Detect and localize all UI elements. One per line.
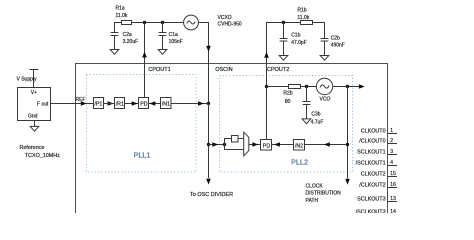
wire VCO output	[333, 86, 359, 88]
svg-text:/SCLKOUT3: /SCLKOUT3	[356, 210, 386, 213]
wire R2b to VCO	[301, 86, 317, 88]
svg-text:PATH: PATH	[306, 198, 319, 204]
wire R1a left to C2a	[115, 23, 122, 33]
svg-text:VCO: VCO	[320, 97, 331, 103]
wire VCO feedback to N2	[305, 144, 348, 146]
resistor R1a	[122, 21, 132, 25]
wire R1b right to C2b	[313, 23, 325, 39]
wire VCXO to OSCIN	[198, 23, 208, 104]
svg-text:C3b: C3b	[311, 111, 320, 117]
PLL1 dotted box	[87, 75, 197, 173]
node junction CPOUT2-R2b	[265, 85, 268, 88]
ground under C3b	[302, 119, 311, 124]
wire P1 to R1	[104, 103, 115, 105]
svg-text:2: 2	[390, 138, 393, 144]
divider /N2	[294, 140, 305, 151]
arrowhead into PLL2	[212, 142, 218, 147]
svg-text:105nF: 105nF	[169, 39, 183, 45]
wire VCO down to clock distribution	[347, 87, 349, 179]
mux symbol	[244, 132, 249, 156]
svg-text:16: 16	[390, 182, 396, 188]
phase detector PD (PLL1)	[139, 98, 149, 109]
wire TCXO ground stub	[34, 121, 36, 127]
svg-text:DISTRIBUTION: DISTRIBUTION	[306, 191, 342, 197]
arrowhead VCO to clock outputs	[359, 84, 365, 89]
wire N2 to PD	[272, 144, 294, 146]
svg-text:PD: PD	[263, 144, 271, 150]
svg-text:15: 15	[390, 171, 396, 177]
pin 16 /CLKOUT2	[388, 187, 398, 189]
svg-text:11.0k: 11.0k	[116, 13, 128, 19]
svg-text:CVHD-950: CVHD-950	[218, 22, 242, 28]
arrowhead at OSCIN node	[198, 101, 204, 106]
wire N1 to OSCIN node	[171, 103, 209, 105]
wire OSCIN down to OSC divider	[208, 104, 210, 179]
svg-text:3.20uF: 3.20uF	[123, 39, 139, 45]
svg-text:/P1: /P1	[94, 102, 102, 108]
svg-text:PD: PD	[140, 102, 148, 108]
svg-text:/R1: /R1	[116, 102, 124, 108]
node junction C1b	[282, 21, 285, 24]
power symbol V Supply	[30, 69, 39, 71]
svg-text:Reference: Reference	[20, 145, 45, 151]
svg-text:80: 80	[285, 99, 291, 105]
arrowhead up CPOUT2	[264, 52, 269, 58]
arrowhead N2 into PD	[274, 142, 280, 147]
wire into PLL2	[209, 144, 225, 146]
svg-text:11.0k: 11.0k	[297, 15, 309, 21]
resistor R1b	[301, 21, 313, 25]
phase detector PD (PLL2)	[261, 140, 272, 151]
svg-text:/N1: /N1	[162, 102, 170, 108]
capacitor C1b	[283, 23, 285, 39]
svg-text:3: 3	[390, 149, 393, 155]
svg-text:CLKOUT0: CLKOUT0	[361, 129, 386, 135]
arrowhead N1 into PD	[149, 101, 155, 106]
svg-text:/SCLKOUT1: /SCLKOUT1	[356, 161, 386, 167]
wire R1 to PD	[125, 103, 139, 105]
node junction OSCIN-N1	[207, 102, 210, 105]
pin 3 SCLKOUT1	[388, 154, 398, 156]
ground under C1a	[158, 50, 167, 55]
divider /P1	[94, 98, 104, 109]
wire F out to REF	[51, 103, 94, 105]
svg-text:Gnd: Gnd	[28, 113, 38, 119]
svg-text:VCXO: VCXO	[218, 15, 232, 21]
wire CPOUT2 node to R2b	[267, 86, 289, 88]
capacitor C2a	[111, 32, 119, 34]
wire R1a right to VCXO	[132, 22, 184, 24]
svg-text:490nF: 490nF	[331, 43, 345, 49]
svg-text:TCXO_10MHz: TCXO_10MHz	[25, 153, 60, 159]
svg-text:REF: REF	[76, 97, 86, 103]
wire N1 to PD	[149, 103, 161, 105]
arrowhead down to clock distribution	[345, 179, 350, 185]
ground under C2a	[110, 50, 119, 55]
svg-text:1: 1	[390, 128, 393, 134]
svg-text:4: 4	[390, 160, 393, 166]
divider /R1	[115, 98, 125, 109]
TCXO reference oscillator box	[18, 88, 51, 121]
ground under TCXO	[30, 126, 39, 131]
svg-text:/N2: /N2	[295, 144, 303, 150]
svg-text:4.7uF: 4.7uF	[311, 119, 324, 125]
node junction CPOUT1 / filter	[143, 21, 146, 24]
PLL2 dotted box	[220, 76, 353, 173]
svg-text:SCLKOUT1: SCLKOUT1	[357, 150, 385, 156]
svg-text:47.0pF: 47.0pF	[291, 40, 307, 46]
svg-text:R1a: R1a	[116, 6, 125, 12]
wire prescaler to mux	[238, 138, 244, 140]
svg-text:PLL1: PLL1	[134, 151, 151, 160]
pin 2 /CLKOUT0	[388, 143, 398, 145]
wire upper branch to prescaler	[225, 139, 232, 145]
arrowhead down into OSCIN	[206, 46, 211, 52]
svg-text:13: 13	[390, 196, 396, 202]
capacitor C1a	[162, 23, 164, 33]
svg-text:CLKOUT2: CLKOUT2	[361, 172, 386, 178]
arrowhead feedback into N2	[324, 142, 330, 147]
IC outer box (clock chip, clipped at bottom)	[76, 64, 388, 214]
svg-text:OSCIN: OSCIN	[215, 67, 232, 73]
wire CPOUT1 vertical	[144, 23, 146, 98]
wire lower branch to mux	[225, 145, 244, 150]
oscillator VCO	[316, 78, 332, 94]
wire mux to PD (PLL2)	[249, 144, 261, 146]
arrowhead up CPOUT1	[142, 52, 147, 58]
node junction C1a	[161, 21, 164, 24]
pin 13 SCLKOUT3	[388, 201, 398, 203]
svg-text:/CLKOUT2: /CLKOUT2	[359, 183, 385, 189]
capacitor C2b	[321, 38, 329, 40]
arrowhead P1 to R1	[108, 101, 114, 106]
ground under C1b	[279, 56, 288, 61]
svg-text:CPOUT1: CPOUT1	[148, 67, 170, 73]
node junction C3b	[305, 85, 308, 88]
divider /N1	[161, 98, 172, 109]
pin 15 CLKOUT2	[388, 176, 398, 178]
svg-text:14: 14	[390, 209, 396, 213]
pin 4 /SCLKOUT1	[388, 165, 398, 167]
svg-text:C2a: C2a	[123, 32, 132, 38]
svg-text:/CLKOUT0: /CLKOUT0	[359, 139, 385, 145]
svg-text:To OSC DIVIDER: To OSC DIVIDER	[190, 192, 233, 198]
node junction feedback tap	[346, 143, 349, 146]
svg-text:PLL2: PLL2	[291, 158, 308, 167]
node junction PLL2 input	[223, 143, 226, 146]
capacitor C3b	[306, 87, 308, 102]
svg-text:F out: F out	[37, 101, 49, 107]
arrowhead REF input	[81, 101, 87, 106]
svg-text:V Supply: V Supply	[17, 76, 38, 82]
svg-text:SCLKOUT3: SCLKOUT3	[357, 197, 385, 203]
arrowhead to OSC divider	[206, 179, 211, 185]
ground under C2b	[320, 56, 329, 61]
node junction mux branch	[207, 143, 210, 146]
prescaler box	[232, 136, 239, 143]
svg-text:CLOCK: CLOCK	[306, 183, 324, 189]
svg-text:R2b: R2b	[283, 90, 292, 96]
svg-text:C1a: C1a	[169, 32, 178, 38]
arrowhead R1 to PD	[132, 101, 138, 106]
svg-text:C2b: C2b	[331, 36, 340, 42]
node junction VCO output	[346, 85, 349, 88]
svg-text:CPOUT2: CPOUT2	[267, 67, 289, 73]
resistor R2b	[289, 85, 301, 89]
pin 14 /SCLKOUT3	[388, 214, 398, 216]
svg-text:C1b: C1b	[291, 32, 300, 38]
svg-text:R1b: R1b	[297, 8, 306, 14]
svg-text:V+: V+	[31, 90, 37, 96]
wire R1b left to CPOUT2	[267, 23, 301, 140]
arrowhead mux to PD	[252, 142, 258, 147]
oscillator VCXO CVHD-950	[184, 15, 199, 30]
pin 1 CLKOUT0	[388, 133, 398, 135]
